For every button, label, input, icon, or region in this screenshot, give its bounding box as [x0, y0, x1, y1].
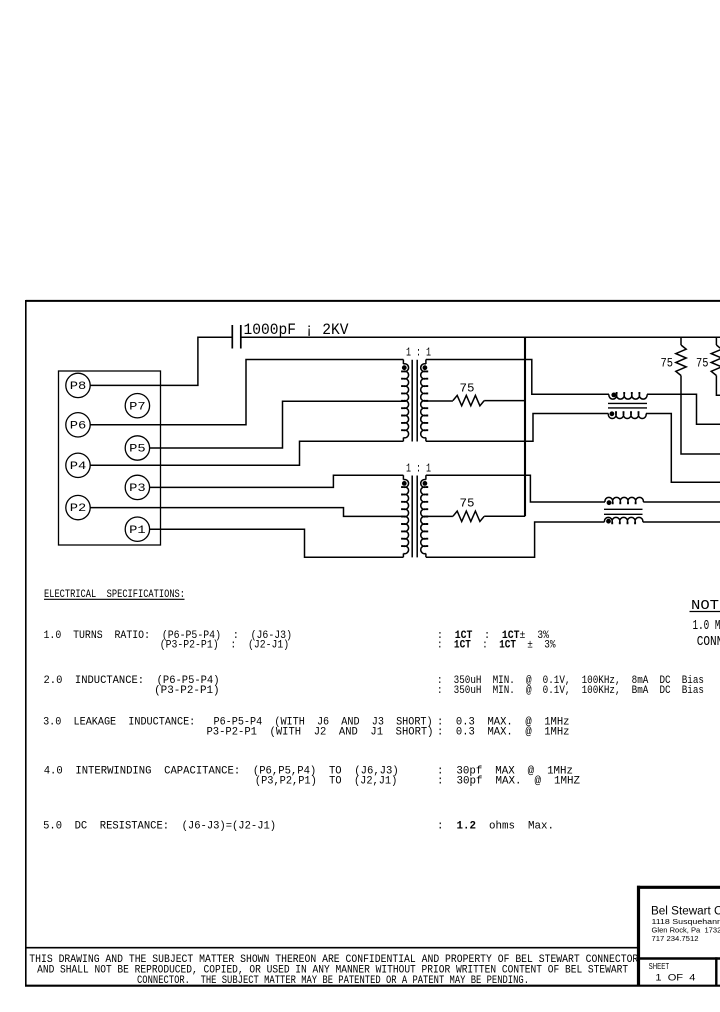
svg-text:CONNECTOR: CONNECTOR [697, 635, 720, 650]
svg-text:: 0.3 MAX. @ 1MHz: : 0.3 MAX. @ 1MHz [437, 726, 570, 738]
svg-text:1 OF 4: 1 OF 4 [655, 973, 695, 984]
svg-text:1.0 MATERIAL: 1.0 MATERIAL [693, 619, 720, 634]
svg-text:1 : 1: 1 : 1 [406, 346, 431, 360]
svg-text:P6: P6 [70, 420, 87, 432]
svg-text:: 350uH MIN. @ 0.1V, 100K: : 350uH MIN. @ 0.1V, 100KHz, BmA DC Bias [437, 685, 704, 697]
svg-text:: 1.2 ohms Max.: : 1.2 ohms Max. [437, 820, 554, 832]
svg-text:75: 75 [696, 357, 709, 371]
svg-text:75: 75 [661, 357, 674, 371]
svg-text:P3-P2-P1 (WITH J2 AND J1: P3-P2-P1 (WITH J2 AND J1 SHORT) [207, 726, 434, 738]
svg-text:Bel Stewart Connector: Bel Stewart Connector [651, 906, 720, 918]
svg-text:1000pF ¡ 2KV: 1000pF ¡ 2KV [244, 321, 350, 339]
svg-text:(P3-P2-P1) : (J2-J1): (P3-P2-P1) : (J2-J1) [160, 640, 289, 652]
svg-text:: 1CT : 1CT ± 3%: : 1CT : 1CT ± 3% [437, 640, 556, 652]
svg-text:(P3-P2-P1): (P3-P2-P1) [154, 685, 220, 697]
svg-text:P3: P3 [129, 483, 146, 495]
svg-text:P2: P2 [70, 503, 87, 515]
svg-text:1118 Susquehanna Trail South: 1118 Susquehanna Trail South [652, 917, 720, 926]
svg-text:(P3,P2,P1) TO (J2,J1): (P3,P2,P1) TO (J2,J1) [255, 775, 397, 787]
svg-text:SHEET: SHEET [649, 962, 670, 971]
svg-text:75: 75 [460, 497, 475, 511]
svg-text:: 30pf MAX. @ 1MHZ: : 30pf MAX. @ 1MHZ [437, 775, 580, 787]
svg-text:5.0 DC RESISTANCE: (J6-J3)=: 5.0 DC RESISTANCE: (J6-J3)=(J2-J1) [43, 820, 276, 832]
svg-text:717 234.7512: 717 234.7512 [652, 934, 699, 943]
svg-text:P1: P1 [129, 525, 146, 537]
svg-text:P7: P7 [129, 401, 146, 413]
svg-text:1 : 1: 1 : 1 [406, 461, 431, 475]
svg-text:75: 75 [460, 382, 475, 396]
svg-text:P4: P4 [70, 461, 87, 473]
svg-text:P5: P5 [129, 444, 146, 456]
svg-text:P8: P8 [70, 381, 87, 393]
svg-text:CONNECTOR. THE SUBJECT MATTER: CONNECTOR. THE SUBJECT MATTER MAY BE PAT… [137, 975, 529, 987]
